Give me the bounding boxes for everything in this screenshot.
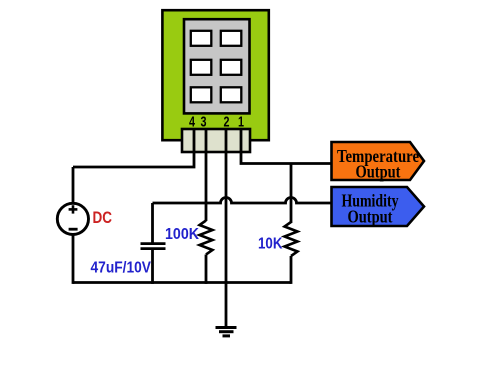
resistor R2 10K zigzag xyxy=(285,222,298,256)
sensor vent hole row1 col1 xyxy=(191,31,212,46)
sensor grille (gray inner plate) xyxy=(184,19,250,113)
sensor vent hole row2 col2 xyxy=(221,60,242,75)
Temperature Output flag xyxy=(332,142,425,180)
svg-text:1: 1 xyxy=(238,114,244,131)
svg-text:47uF/10V: 47uF/10V xyxy=(91,260,152,277)
pin 4 lead and wire to DC+ xyxy=(73,129,194,167)
sensor vent hole row2 col1 xyxy=(191,60,212,75)
pin 3 lead down through node to 100K xyxy=(205,129,208,221)
humidity net wire with hops over pin2 and 10K wires xyxy=(153,198,333,204)
ground symbol xyxy=(216,326,237,329)
svg-text:DC: DC xyxy=(93,208,113,227)
wire DC+ vertical xyxy=(72,167,75,204)
capacitor C1 plates xyxy=(141,242,166,245)
capacitor C1 top lead xyxy=(151,203,154,244)
resistor R1 100K zigzag xyxy=(200,221,213,255)
DC source plus sign xyxy=(69,208,78,211)
DC source minus sign xyxy=(69,228,78,231)
sensor vent hole row3 col2 xyxy=(221,87,242,102)
wire node at (291,163.5) down to 10K xyxy=(290,164,293,224)
svg-text:Output: Output xyxy=(356,162,401,182)
ground rail wire xyxy=(73,281,291,284)
sensor vent hole row3 col1 xyxy=(191,87,212,102)
sensor vent hole row1 col2 xyxy=(221,31,242,46)
svg-text:3: 3 xyxy=(201,114,207,131)
svg-text:10K: 10K xyxy=(258,236,283,253)
Humidity Output flag xyxy=(332,187,425,226)
svg-text:Output: Output xyxy=(348,207,393,227)
pin 1 lead and wire to Temperature Output xyxy=(241,129,332,164)
sensor pin header strip xyxy=(182,129,250,152)
svg-text:100K: 100K xyxy=(165,226,199,243)
resistor R1 bottom lead xyxy=(205,255,208,284)
svg-text:4: 4 xyxy=(189,114,195,131)
sensor U1 body (green package) xyxy=(162,10,268,140)
wire DC- to ground rail xyxy=(72,234,75,284)
capacitor C1 bottom lead xyxy=(151,249,154,284)
resistor R2 bottom lead xyxy=(290,256,293,284)
DC source V1 circle xyxy=(57,203,88,234)
pin 2 lead down to ground rail xyxy=(225,129,228,328)
svg-text:2: 2 xyxy=(224,114,230,131)
